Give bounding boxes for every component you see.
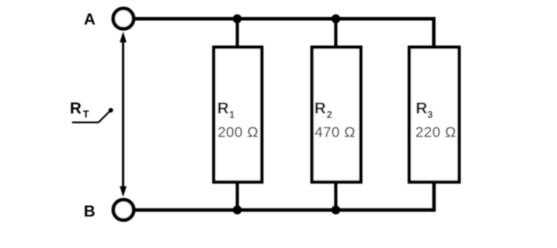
svg-text:2: 2 xyxy=(327,110,333,121)
svg-text:B: B xyxy=(84,203,96,220)
svg-text:3: 3 xyxy=(427,110,433,121)
svg-text:A: A xyxy=(84,12,96,29)
svg-text:200 Ω: 200 Ω xyxy=(218,125,259,141)
svg-text:R: R xyxy=(70,100,82,117)
svg-text:R: R xyxy=(314,100,326,117)
svg-text:R: R xyxy=(217,100,229,117)
svg-text:470 Ω: 470 Ω xyxy=(315,125,356,141)
svg-text:220 Ω: 220 Ω xyxy=(415,125,456,141)
svg-text:R: R xyxy=(416,100,428,117)
svg-text:1: 1 xyxy=(229,110,235,121)
svg-text:T: T xyxy=(83,110,89,121)
